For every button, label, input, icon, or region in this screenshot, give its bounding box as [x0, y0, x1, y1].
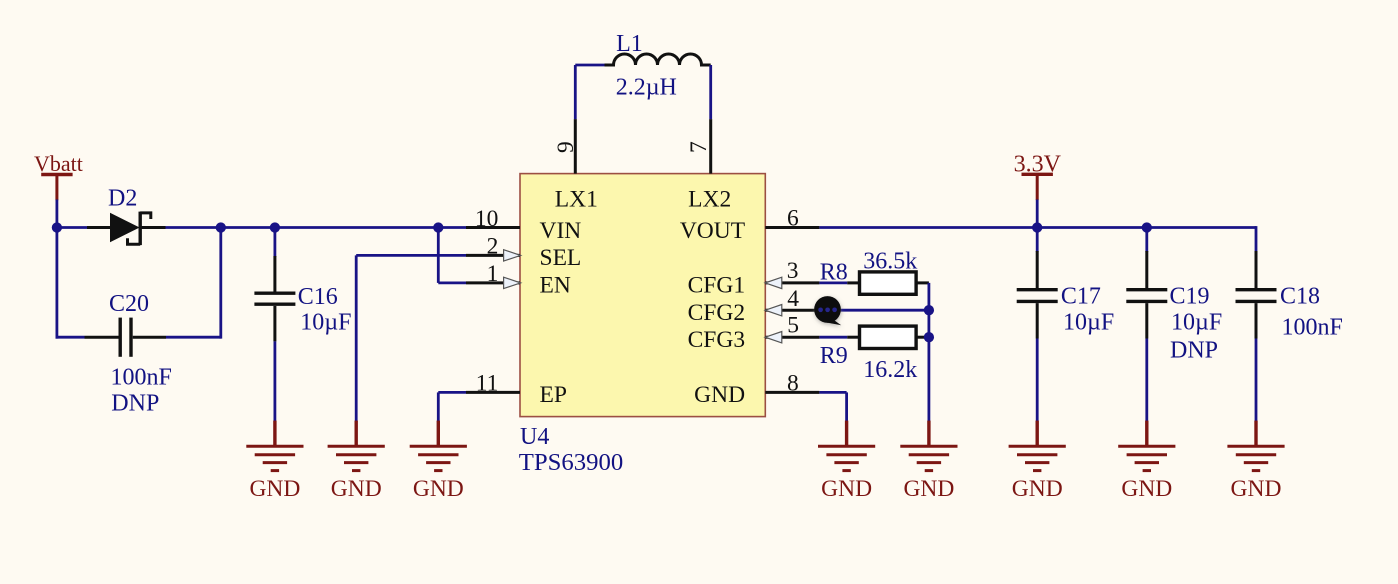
- wire EN leg from rail junction: [437, 228, 440, 283]
- svg-text:VIN: VIN: [540, 218, 582, 244]
- node junction C19 tap: [1142, 222, 1152, 232]
- pin 3 CFG1 stub: [765, 281, 819, 284]
- svg-text:3: 3: [787, 258, 799, 284]
- svg-text:10µF: 10µF: [1063, 310, 1114, 336]
- wire CFG3 to R9: [819, 336, 847, 339]
- wire LX1 top horizontal: [575, 64, 604, 67]
- wire Vbatt column down to rail: [56, 200, 59, 228]
- svg-text:SEL: SEL: [540, 245, 582, 271]
- pin 8 GND stub: [765, 391, 819, 394]
- power flag Vbatt: [41, 175, 72, 201]
- pin 5 CFG3 stub: [765, 336, 819, 339]
- power flag 3.3V: [1021, 174, 1052, 200]
- svg-text:LX1: LX1: [555, 186, 598, 212]
- wire rail from diode to VIN pin: [166, 226, 467, 229]
- svg-text:11: 11: [476, 370, 499, 396]
- ground C16: [246, 421, 303, 502]
- ground divider: [900, 421, 957, 502]
- wire rail from Vbatt to diode anode: [57, 226, 87, 229]
- pin 11 EP stub: [466, 391, 520, 394]
- svg-text:2.2µH: 2.2µH: [616, 75, 677, 101]
- svg-text:8: 8: [787, 370, 799, 396]
- wire C19 bottom: [1145, 339, 1148, 422]
- capacitor C17: [1017, 251, 1058, 339]
- wire 3.3V to rail: [1036, 200, 1039, 228]
- ground C17: [1009, 421, 1066, 502]
- svg-text:R8: R8: [820, 260, 848, 286]
- wire C17 bottom: [1036, 339, 1039, 422]
- pin 10 VIN stub: [466, 226, 520, 229]
- svg-text:VOUT: VOUT: [680, 218, 745, 244]
- pin 1 EN stub: [466, 281, 520, 284]
- svg-text:3.3V: 3.3V: [1014, 151, 1062, 177]
- svg-text:C19: C19: [1170, 284, 1210, 310]
- svg-text:CFG3: CFG3: [688, 327, 745, 353]
- balloon dots: [818, 307, 837, 312]
- node junction C20 tap: [216, 222, 226, 232]
- node junction at Vbatt/rail: [52, 222, 62, 232]
- node junction C16 tap: [270, 222, 280, 232]
- wire C16 top lead: [273, 228, 276, 258]
- svg-text:LX2: LX2: [688, 186, 731, 212]
- wire LX2 down: [709, 65, 712, 119]
- svg-text:7: 7: [686, 141, 712, 153]
- pin 6 VOUT stub: [765, 226, 819, 229]
- svg-text:EN: EN: [540, 273, 571, 299]
- wire C16 bottom to ground: [273, 341, 276, 422]
- comment balloon on CFG2: [814, 296, 841, 325]
- svg-text:CFG2: CFG2: [688, 300, 745, 326]
- ground C18: [1227, 421, 1284, 502]
- node junction 3.3V tap: [1032, 222, 1042, 232]
- wire pin8 GND leg: [845, 392, 848, 421]
- wire LX1 up: [574, 65, 577, 119]
- wire C18 corner down: [1255, 226, 1258, 252]
- wire EP leg down to ground: [437, 392, 440, 422]
- svg-text:10µF: 10µF: [1171, 310, 1222, 336]
- inductor L1: [605, 54, 711, 65]
- wire EP horizontal: [438, 391, 466, 394]
- diode D2 (Schottky): [87, 212, 166, 246]
- capacitor C20: [85, 318, 167, 357]
- ground C19: [1118, 421, 1175, 502]
- ground SEL: [328, 421, 385, 502]
- pin 5 input arrow: [765, 332, 782, 343]
- wire C20 left horizontal: [56, 336, 85, 339]
- svg-text:TPS63900: TPS63900: [519, 450, 624, 476]
- pin 3 input arrow: [765, 277, 782, 288]
- svg-text:1: 1: [487, 261, 499, 287]
- capacitor C19: [1126, 251, 1167, 339]
- ground EP: [410, 421, 467, 502]
- svg-text:100nF: 100nF: [111, 365, 172, 391]
- svg-text:C16: C16: [298, 284, 338, 310]
- wire C17 top: [1036, 228, 1039, 253]
- wire EN horizontal to pin 1: [438, 281, 466, 284]
- pin 2 input arrow: [504, 250, 521, 261]
- wire SEL horizontal to pin 2: [356, 254, 466, 257]
- svg-text:100nF: 100nF: [1282, 315, 1343, 341]
- pin 4 input arrow: [765, 305, 782, 316]
- wire C19 top: [1145, 228, 1148, 253]
- svg-text:GND: GND: [694, 382, 745, 408]
- capacitor C16: [254, 256, 295, 341]
- svg-text:4: 4: [787, 286, 799, 312]
- svg-text:9: 9: [553, 141, 579, 153]
- node junction EN tap: [433, 222, 443, 232]
- wire VOUT rail: [819, 226, 1256, 229]
- pin 1 input arrow: [504, 277, 521, 288]
- svg-text:L1: L1: [616, 31, 643, 57]
- svg-text:U4: U4: [520, 424, 549, 450]
- wire SEL leg: vertical from ground: [355, 255, 358, 422]
- svg-text:D2: D2: [108, 186, 137, 212]
- node junction R9/divider: [924, 332, 934, 342]
- svg-text:DNP: DNP: [1170, 338, 1218, 364]
- wire divider column down: [928, 283, 931, 421]
- svg-text:EP: EP: [540, 382, 567, 408]
- pin 9 LX1 stub: [574, 119, 577, 174]
- resistor R8: [847, 272, 929, 294]
- pin 2 SEL stub: [466, 254, 520, 257]
- ground pin8: [818, 421, 875, 502]
- svg-text:5: 5: [787, 313, 799, 339]
- wire C18 bottom: [1255, 339, 1258, 422]
- svg-text:10µF: 10µF: [300, 309, 351, 335]
- wire pin8 GND horizontal: [819, 391, 846, 394]
- resistor R9: [847, 326, 929, 348]
- svg-text:C18: C18: [1280, 284, 1320, 310]
- svg-text:C17: C17: [1061, 284, 1101, 310]
- wire C20 right leg up to rail: [219, 228, 222, 339]
- wire C20 right horizontal: [166, 336, 221, 339]
- svg-text:C20: C20: [109, 291, 149, 317]
- capacitor C18: [1236, 251, 1277, 339]
- op-amp U1 equivalent: IC U4 body: [520, 174, 765, 417]
- pin 4 CFG2 stub: [765, 309, 819, 312]
- node junction CFG2/divider: [924, 305, 934, 315]
- svg-text:6: 6: [787, 206, 799, 232]
- wire CFG2 to divider node: [819, 309, 929, 312]
- svg-text:R9: R9: [820, 343, 848, 369]
- wire left leg down to C20: [56, 228, 59, 339]
- pin 7 LX2 stub: [709, 119, 712, 174]
- svg-text:Vbatt: Vbatt: [34, 151, 83, 176]
- svg-text:2: 2: [487, 234, 499, 260]
- svg-text:CFG1: CFG1: [688, 273, 745, 299]
- svg-text:36.5k: 36.5k: [863, 249, 917, 275]
- svg-text:DNP: DNP: [111, 391, 159, 417]
- svg-text:16.2k: 16.2k: [863, 357, 917, 383]
- wire CFG1 to R8: [819, 281, 847, 284]
- svg-text:10: 10: [475, 206, 499, 232]
